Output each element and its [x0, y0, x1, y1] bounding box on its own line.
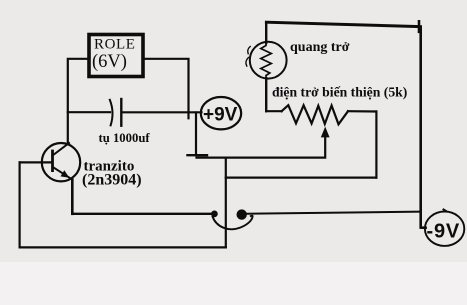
- wire hop arc: [213, 216, 253, 230]
- node: +9V stem: [195, 113, 197, 156]
- potentiometer wiper arrow: [321, 127, 330, 138]
- battery +9V circle: [201, 97, 241, 129]
- photoresistor LDR zigzag: [261, 44, 272, 79]
- wire: capacitor left lead: [68, 111, 110, 113]
- potentiometer R1 left lead: [266, 110, 281, 112]
- transistor Q1 circle: [42, 143, 80, 181]
- wire: relay left lead down to collector node: [68, 59, 89, 144]
- battery -9V circle: [425, 212, 464, 246]
- wire: run to -9V: [247, 212, 421, 214]
- wire: capacitor right lead to +9V terminal: [123, 111, 202, 113]
- svg-text:tụ 1000uf: tụ 1000uf: [99, 131, 151, 145]
- node tick at +9V stem end: [188, 154, 208, 156]
- photoresistor LDR circle: [250, 42, 287, 79]
- wire: LDR bottom lead: [265, 78, 267, 111]
- transistor Q1 base bar: [51, 151, 54, 171]
- wire: emitter vertical: [71, 180, 74, 214]
- svg-text:(6V): (6V): [92, 52, 127, 72]
- capacitor C1 right plate: [120, 99, 122, 126]
- svg-text:-9V: -9V: [427, 221, 461, 243]
- potentiometer R1 right lead: [348, 110, 376, 113]
- svg-text:điện trở biến thiện (5k): điện trở biến thiện (5k): [272, 85, 407, 101]
- wire: top run: [266, 22, 419, 26]
- wire: wiper line from node to potentiometer wiper: [197, 131, 326, 158]
- potentiometer R1 zigzag: [282, 105, 348, 124]
- wire: lower horizontal to mid vertical: [226, 177, 377, 179]
- wire: right vertical rail to -9V: [421, 27, 426, 228]
- transistor Q1 emitter stroke with arrow: [53, 167, 73, 180]
- svg-text:quang trở: quang trở: [290, 40, 350, 55]
- wire: left vertical of base loop: [19, 162, 21, 247]
- wire: bottom horizontal of base loop: [20, 246, 226, 248]
- wire: base lead into transistor: [20, 161, 52, 163]
- wire: LDR top lead: [265, 22, 267, 43]
- junction dot right: [237, 209, 247, 219]
- LDR small marks: [248, 47, 250, 54]
- wire: mid vertical (base net): [225, 158, 227, 248]
- wire: emitter bottom run: [72, 213, 212, 215]
- terminal tick top right: [418, 21, 421, 32]
- svg-text:+9V: +9V: [203, 104, 238, 125]
- relay box K1 (ROLE 6V): [89, 35, 143, 77]
- wire: relay right lead down to +9V rail: [143, 59, 189, 119]
- svg-text:(2n3904): (2n3904): [82, 172, 142, 189]
- capacitor C1 left plate (curved): [110, 100, 113, 126]
- transistor Q1 collector stroke: [53, 143, 70, 156]
- wire: pot right lead down: [375, 112, 377, 178]
- nub at -9V circle top: [444, 210, 447, 212]
- junction dot left: [211, 211, 218, 218]
- svg-text:ROLE: ROLE: [94, 36, 136, 52]
